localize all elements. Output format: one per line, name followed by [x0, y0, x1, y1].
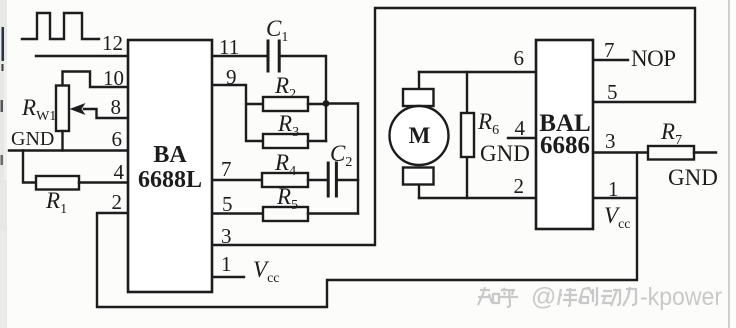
wire pin1 Vcc stub: [212, 276, 244, 278]
svg-text:C1: C1: [266, 16, 288, 45]
resistor R7: [648, 146, 694, 160]
svg-text:5: 5: [607, 80, 618, 104]
wire motor top stem: [418, 72, 420, 89]
svg-text:R5: R5: [276, 184, 298, 213]
wire pin3 feedback loop to BAL pin5: [212, 8, 695, 245]
svg-text:3: 3: [605, 129, 616, 153]
wire pin11 to C1: [212, 55, 267, 57]
svg-text:4: 4: [114, 160, 125, 184]
capacitor C2: [328, 163, 336, 196]
svg-text:7: 7: [604, 38, 615, 62]
wire pin10 to RW1 top: [63, 72, 129, 88]
resistor R6: [461, 113, 474, 157]
svg-text:RW1: RW1: [21, 95, 56, 124]
svg-text:NOP: NOP: [631, 46, 676, 71]
wire BAL pin6: [419, 71, 536, 73]
svg-text:4: 4: [515, 116, 526, 140]
resistor R3: [263, 134, 308, 148]
wire BAL pin2: [419, 197, 536, 199]
wire C2 right: [338, 179, 358, 181]
svg-text:8: 8: [111, 95, 122, 119]
svg-text:6686: 6686: [540, 132, 590, 159]
svg-text:R3: R3: [277, 111, 299, 140]
op IC U1 BA6688L box: [128, 40, 212, 292]
wire R1 to pin4: [79, 181, 128, 183]
scan artifact right line: [728, 0, 730, 328]
wire R6 branch: [466, 72, 468, 198]
resistor R2: [263, 97, 308, 111]
wire R2 right: [308, 103, 326, 105]
svg-text:R1: R1: [45, 188, 67, 217]
svg-text:R7: R7: [660, 119, 682, 148]
svg-text:6: 6: [514, 46, 525, 70]
square wave input signal: [22, 13, 99, 39]
svg-text:M: M: [409, 123, 431, 148]
wire RW1 bottom to GND rail: [61, 131, 63, 151]
svg-text:R6: R6: [477, 109, 499, 138]
resistor R4: [262, 173, 308, 187]
wire R4 to C2: [308, 179, 327, 181]
svg-text:@: @: [531, 283, 556, 311]
svg-text:Vcc: Vcc: [253, 257, 280, 286]
svg-text:9: 9: [226, 65, 237, 89]
svg-text:BA: BA: [153, 142, 187, 168]
motor M symbol: [390, 89, 449, 185]
svg-text:1: 1: [221, 252, 232, 276]
svg-text:GND: GND: [668, 165, 718, 190]
scan artifact left strip: [0, 0, 7, 328]
wire pin8 wiper: [84, 109, 128, 118]
wire BAL pin3 to R7: [593, 151, 648, 153]
wire R3 right: [308, 140, 326, 142]
svg-text:7: 7: [221, 157, 232, 181]
svg-text:10: 10: [103, 66, 124, 90]
wire pin9 down: [212, 85, 263, 141]
svg-text:-kpower: -kpower: [640, 283, 722, 311]
wire C1 right down to R3: [280, 56, 326, 141]
svg-text:R4: R4: [274, 150, 296, 179]
wire motor bottom stem: [418, 184, 420, 198]
svg-text:6: 6: [112, 127, 123, 151]
svg-text:GND: GND: [11, 128, 54, 150]
wire BAL pin7 NOP: [593, 59, 628, 61]
resistor R1: [36, 176, 79, 190]
wire R5 right: [308, 212, 358, 214]
wire R1 branch: [23, 151, 36, 183]
svg-text:5: 5: [222, 192, 233, 216]
wire BAL pin4 stub: [508, 137, 536, 139]
wire R7 to GND: [694, 151, 716, 153]
watermark 知乎 @伟创动力-kpower: [478, 287, 518, 307]
wiper arrow head of RW1: [70, 103, 86, 115]
potentiometer RW1 body: [56, 86, 69, 132]
capacitor C1: [268, 41, 279, 71]
wire pin2 bottom loop to Vcc rail: [97, 153, 637, 308]
driver IC U2 BAL6686 box: [536, 40, 593, 229]
svg-text:Vcc: Vcc: [604, 203, 631, 232]
svg-text:2: 2: [112, 190, 123, 214]
resistor R5: [263, 207, 308, 221]
svg-text:12: 12: [102, 31, 123, 55]
wire pin12: [36, 55, 128, 57]
svg-text:R2: R2: [274, 73, 296, 102]
wire GND rail pin6: [9, 149, 128, 151]
svg-text:3: 3: [221, 224, 232, 248]
svg-text:GND: GND: [480, 141, 530, 166]
wire node A to C2 branch vertical: [326, 104, 358, 214]
wire BAL pin1: [593, 197, 637, 199]
svg-text:1: 1: [608, 177, 619, 201]
svg-text:2: 2: [514, 174, 525, 198]
wire pin7 to R4: [212, 179, 262, 181]
svg-text:11: 11: [219, 35, 239, 59]
svg-text:C2: C2: [330, 141, 352, 170]
wire pin5 to R5: [212, 212, 263, 214]
svg-text:6688L: 6688L: [138, 167, 202, 193]
junction node dot: [323, 100, 330, 107]
